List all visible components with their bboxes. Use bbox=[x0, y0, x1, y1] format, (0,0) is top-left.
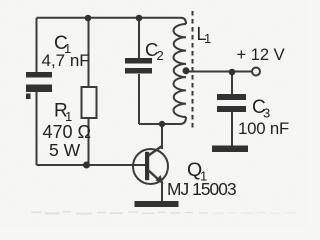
svg-text:100 nF: 100 nF bbox=[238, 119, 289, 138]
svg-text:5 W: 5 W bbox=[49, 140, 81, 160]
svg-text:MJ 15003: MJ 15003 bbox=[167, 179, 236, 199]
svg-text:1: 1 bbox=[204, 31, 211, 46]
svg-text:+ 12 V: + 12 V bbox=[237, 46, 285, 64]
svg-text:4,7 nF: 4,7 nF bbox=[42, 51, 90, 70]
svg-text:2: 2 bbox=[157, 48, 164, 63]
svg-text:470 Ω: 470 Ω bbox=[43, 122, 92, 142]
